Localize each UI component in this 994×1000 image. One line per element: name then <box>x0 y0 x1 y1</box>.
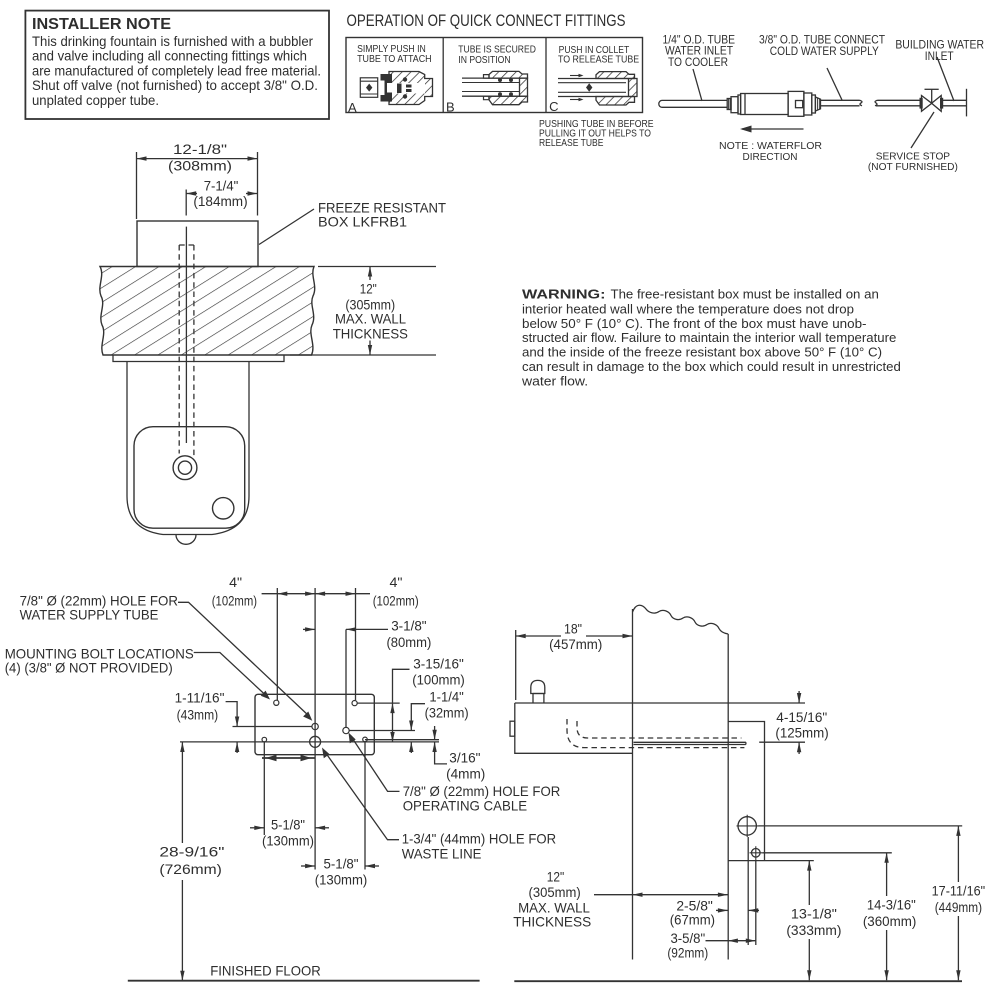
panel B orings <box>498 78 502 82</box>
svg-text:12": 12" <box>547 868 565 884</box>
dim 12-1/8 text <box>168 141 232 174</box>
svg-text:WATER SUPPLY TUBE: WATER SUPPLY TUBE <box>20 606 159 622</box>
dim 7-1/4 arrows <box>186 193 197 195</box>
hole waste <box>310 736 321 747</box>
svg-text:COLD WATER SUPPLY: COLD WATER SUPPLY <box>770 44 879 58</box>
hole operating cable <box>343 727 349 733</box>
svg-text:4": 4" <box>229 574 242 590</box>
label waste line hole <box>402 830 556 861</box>
leader waste line <box>324 751 399 840</box>
dim 3-1/8 arrows <box>303 628 315 630</box>
label freeze resistant box <box>318 200 446 230</box>
basin front <box>134 427 245 529</box>
svg-text:(102mm): (102mm) <box>373 592 419 608</box>
side plate bottom and ref 13-1/8 <box>728 860 814 862</box>
svg-text:3-15/16": 3-15/16" <box>413 656 464 672</box>
dim 2-5/8 text <box>670 898 715 928</box>
panel A gripper <box>397 84 402 94</box>
bottom bump <box>176 535 196 545</box>
svg-text:FINISHED FLOOR: FINISHED FLOOR <box>210 963 321 979</box>
dim 4in left text <box>212 574 257 608</box>
svg-text:17-11/16": 17-11/16" <box>932 883 986 899</box>
ext 18 left <box>515 630 517 700</box>
warning text <box>521 286 901 388</box>
svg-text:(4mm): (4mm) <box>446 765 485 781</box>
label 3/8 OD tube connect <box>759 33 886 59</box>
service stop valve <box>920 89 944 111</box>
dim 1-11/16 lower arrow <box>236 742 238 753</box>
svg-text:IN POSITION: IN POSITION <box>458 55 510 66</box>
dim 3/16 text <box>446 749 485 781</box>
svg-text:(125mm): (125mm) <box>775 725 828 741</box>
note waterflow label <box>719 141 822 163</box>
tube cold water supply (right tube) <box>821 100 863 106</box>
svg-text:(92mm): (92mm) <box>667 944 708 960</box>
svg-text:(80mm): (80mm) <box>386 634 431 650</box>
svg-text:(32mm): (32mm) <box>425 704 469 720</box>
svg-text:NOTE : WATERFLOR: NOTE : WATERFLOR <box>719 141 822 152</box>
svg-text:3/16": 3/16" <box>449 749 480 765</box>
leader operating cable <box>351 736 400 792</box>
svg-text:1-11/16": 1-11/16" <box>175 689 225 705</box>
panel B tube <box>462 77 521 79</box>
leader service stop <box>911 112 934 148</box>
dim 4in line <box>262 593 370 595</box>
svg-text:3-1/8": 3-1/8" <box>391 618 426 634</box>
dim 1-1/4 text <box>425 688 469 720</box>
leader freeze resistant <box>259 209 314 245</box>
svg-text:DIRECTION: DIRECTION <box>743 152 798 163</box>
svg-text:(130mm): (130mm) <box>262 832 314 848</box>
bubbler front outer <box>173 456 197 480</box>
dim 4in right text <box>373 574 419 608</box>
hole top-right bolt <box>352 701 357 706</box>
svg-text:(457mm): (457mm) <box>549 636 602 652</box>
panels outer box <box>346 38 643 113</box>
floor line left <box>128 980 480 982</box>
svg-text:This drinking fountain is furn: This drinking fountain is furnished with… <box>32 34 313 49</box>
dim 5-1/8 #2 <box>315 856 368 888</box>
dashed supply tube front <box>179 245 194 457</box>
wall side right edge <box>727 634 729 960</box>
pushing tube note <box>539 119 654 149</box>
tube break squiggle <box>875 100 922 106</box>
svg-text:5-1/8": 5-1/8" <box>324 856 359 872</box>
tube to building inlet <box>941 100 966 106</box>
bubbler front inner <box>178 461 191 474</box>
dim 12 side text <box>513 868 591 929</box>
svg-text:RELEASE TUBE: RELEASE TUBE <box>539 138 604 149</box>
quick connect coupling <box>727 91 820 116</box>
svg-text:18": 18" <box>564 621 582 637</box>
dim 12in wall text <box>333 281 408 342</box>
svg-text:INSTALLER NOTE: INSTALLER NOTE <box>32 16 171 33</box>
dim 12-1/8 line <box>137 158 258 160</box>
tick 7-1/4 center <box>185 190 187 216</box>
fountain body front <box>127 362 249 535</box>
svg-text:are manufactured of completely: are manufactured of completely lead free… <box>32 63 321 78</box>
svg-text:(100mm): (100mm) <box>412 672 465 688</box>
svg-text:13-1/8": 13-1/8" <box>791 906 837 922</box>
dim 3-15/16 bracket <box>393 669 410 742</box>
label building water inlet <box>895 38 984 64</box>
svg-text:(67mm): (67mm) <box>670 911 715 927</box>
panel A fitting body <box>389 72 433 105</box>
svg-text:water flow.: water flow. <box>521 373 588 388</box>
svg-text:12": 12" <box>360 281 377 297</box>
tube to cooler (left tube) <box>659 100 727 107</box>
svg-text:C: C <box>549 99 558 114</box>
dim 12 side line <box>594 894 728 896</box>
dim 2-5/8 arrows <box>716 909 728 911</box>
panel C push arrows <box>570 75 580 77</box>
svg-text:MAX. WALL: MAX. WALL <box>335 311 406 327</box>
svg-text:1-3/4" (44mm) HOLE FOR: 1-3/4" (44mm) HOLE FOR <box>402 830 556 846</box>
dim 1-11/16 bracket <box>226 702 238 727</box>
ext hole2 down <box>755 859 757 945</box>
service stop label <box>868 152 958 173</box>
svg-text:12-1/8": 12-1/8" <box>173 141 227 157</box>
wall section hatched <box>100 267 315 356</box>
leader building water <box>937 57 954 101</box>
svg-text:unplated copper tube.: unplated copper tube. <box>32 93 159 108</box>
svg-text:THICKNESS: THICKNESS <box>513 914 591 930</box>
floor line right <box>514 980 962 982</box>
ext TR hole <box>355 588 357 700</box>
dim 18 text <box>549 621 602 653</box>
panel A caption <box>357 44 432 65</box>
svg-text:structed air flow. Failure to: structed air flow. Failure to maintain t… <box>522 330 896 345</box>
label 1/4 OD tube <box>663 32 736 69</box>
wall side left edge <box>632 609 634 960</box>
label operating cable hole <box>403 783 561 814</box>
svg-text:5-1/8": 5-1/8" <box>271 816 305 832</box>
svg-text:(43mm): (43mm) <box>177 707 219 723</box>
svg-text:B: B <box>446 99 455 114</box>
svg-text:TUBE TO ATTACH: TUBE TO ATTACH <box>357 54 432 65</box>
ext line right <box>257 152 259 216</box>
drain circle <box>213 498 234 519</box>
dim 28-9/16 text <box>159 843 224 877</box>
dim 18 line <box>516 635 561 637</box>
svg-text:(308mm): (308mm) <box>168 158 232 174</box>
side tab <box>510 721 515 736</box>
svg-text:can result in damage to the bo: can result in damage to the box which co… <box>522 359 901 374</box>
panel C tube <box>558 78 628 80</box>
svg-text:INLET: INLET <box>925 49 954 63</box>
ref line 4-15/16 lower <box>759 741 805 743</box>
ext line left 12-1/8 <box>136 152 138 219</box>
svg-text:interior heated wall where the: interior heated wall where the temperatu… <box>522 301 854 316</box>
dashed tube outer <box>567 719 744 748</box>
svg-text:14-3/16": 14-3/16" <box>867 896 916 912</box>
installer note box <box>25 11 329 119</box>
panel C fitting drawing <box>558 72 637 105</box>
dim 3-5/8 arrows <box>706 940 728 942</box>
panel A fitting drawing <box>360 72 432 105</box>
svg-text:1-1/4": 1-1/4" <box>429 688 463 704</box>
line A bottom holes <box>365 739 439 741</box>
leader water supply hole <box>178 602 310 716</box>
svg-text:WASTE LINE: WASTE LINE <box>402 846 482 862</box>
dim 17-11/16 <box>932 883 986 916</box>
dim 3-15/16 text <box>412 656 465 688</box>
fountain top ref line <box>515 702 805 704</box>
dashed tube inner <box>577 721 741 738</box>
side hole 2 <box>752 849 761 858</box>
panel divider 1 <box>442 38 444 113</box>
dim 5-1/8 #1 <box>262 816 314 848</box>
svg-text:(305mm): (305mm) <box>529 884 581 900</box>
panel A collet black <box>381 74 393 102</box>
solid tube right of wall <box>634 742 746 744</box>
svg-text:A: A <box>348 100 357 115</box>
dim 12in wall vertical <box>369 267 371 281</box>
leader mounting bolts <box>194 653 267 697</box>
ext center <box>314 588 316 870</box>
svg-text:below 50° F (10° C). The front: below 50° F (10° C). The front of the bo… <box>522 316 867 331</box>
panel divider 2 <box>545 38 547 113</box>
dim 4-15/16 arrows <box>798 691 800 703</box>
svg-text:THICKNESS: THICKNESS <box>333 325 408 341</box>
dim 28-9/16 line <box>181 742 183 843</box>
waterflow arrow <box>742 128 804 130</box>
svg-text:WARNING:: WARNING: <box>522 286 606 301</box>
svg-text:and the inside of the freeze r: and the inside of the freeze resistant b… <box>522 345 882 360</box>
hole bottom-left bolt <box>262 737 267 742</box>
svg-text:(726mm): (726mm) <box>159 861 222 877</box>
ext line wall top right <box>318 266 436 268</box>
label mounting bolt locations <box>5 646 194 676</box>
ext line wall bottom right <box>290 354 436 356</box>
dim 3-1/8 text <box>386 618 431 651</box>
hole bottom-right bolt <box>363 737 368 742</box>
svg-text:(130mm): (130mm) <box>315 872 368 888</box>
dim 3/16 bracket <box>435 742 447 764</box>
ref line hole1 <box>759 825 963 827</box>
dim 1-1/4 bracket <box>411 704 425 731</box>
svg-text:(NOT FURNISHED): (NOT FURNISHED) <box>868 162 958 173</box>
dim 3-5/8 text <box>667 930 708 960</box>
under-plate double arrow <box>262 757 315 759</box>
svg-text:(102mm): (102mm) <box>212 592 257 608</box>
side plate vertical <box>728 722 764 861</box>
long line B <box>180 741 439 743</box>
svg-text:7-1/4": 7-1/4" <box>204 177 239 193</box>
dim 13-1/8 <box>786 906 841 939</box>
leader 1/4 od <box>693 69 702 101</box>
panel B collet step <box>484 75 490 100</box>
hole water supply <box>312 723 318 729</box>
panel A tube <box>360 78 377 98</box>
panel C caption <box>558 45 639 65</box>
panel B fitting drawing <box>462 71 528 104</box>
svg-text:TO RELEASE TUBE: TO RELEASE TUBE <box>558 55 639 66</box>
svg-text:(333mm): (333mm) <box>786 922 841 938</box>
svg-text:(184mm): (184mm) <box>193 193 247 209</box>
freeze resistant box <box>137 221 258 267</box>
dim 14-3/16 <box>863 896 917 929</box>
ref line supply hole left <box>233 726 312 728</box>
building water wall line <box>966 89 968 117</box>
dim 7-1/4 text <box>193 177 247 209</box>
svg-text:7/8" Ø (22mm) HOLE FOR: 7/8" Ø (22mm) HOLE FOR <box>403 783 561 799</box>
ext TL hole <box>276 588 278 700</box>
ref line cable hole <box>350 730 416 732</box>
svg-text:4": 4" <box>390 574 403 590</box>
panel B caption <box>458 45 536 66</box>
side hole 1 <box>738 817 756 835</box>
ext BL hole down <box>263 742 265 835</box>
center line front <box>185 227 187 443</box>
dim 4-15/16 text <box>775 709 828 741</box>
leader 3/8 od <box>827 68 842 100</box>
dim 3/16 upper arrow <box>434 726 436 740</box>
escutcheon plate under wall <box>113 355 284 362</box>
svg-text:and valve including all connec: and valve including all connecting fitti… <box>32 49 307 64</box>
ext hole1 down <box>747 837 749 945</box>
ext BR hole down <box>364 742 366 870</box>
svg-text:SERVICE STOP: SERVICE STOP <box>876 152 951 163</box>
svg-text:(4) (3/8" Ø NOT PROVIDED): (4) (3/8" Ø NOT PROVIDED) <box>5 660 173 676</box>
svg-text:28-9/16": 28-9/16" <box>159 843 224 859</box>
panel B nut hatched <box>489 71 528 78</box>
fountain side body <box>515 703 633 753</box>
ref line hole2 <box>762 852 892 854</box>
bubbler side dome <box>531 680 545 693</box>
svg-text:4-15/16": 4-15/16" <box>776 709 827 725</box>
svg-text:(449mm): (449mm) <box>935 899 982 915</box>
label water supply hole <box>20 592 178 622</box>
svg-text:TO COOLER: TO COOLER <box>668 55 728 69</box>
ref line TR hole <box>358 702 400 704</box>
svg-text:BOX LKFRB1: BOX LKFRB1 <box>318 213 407 229</box>
svg-text:(360mm): (360mm) <box>863 913 917 929</box>
dim 1-1/4 lower arrow <box>410 742 412 753</box>
hole top-left bolt <box>274 700 279 705</box>
dim 1-11/16 text <box>175 689 225 722</box>
panel C nut hatched <box>596 72 635 79</box>
mounting plate <box>255 694 374 754</box>
svg-text:The free-resistant box must be: The free-resistant box must be installed… <box>611 286 879 301</box>
svg-text:OPERATION OF QUICK CONNECT FIT: OPERATION OF QUICK CONNECT FITTINGS <box>347 11 626 30</box>
ext cable hole <box>345 629 347 728</box>
svg-text:OPERATING CABLE: OPERATING CABLE <box>403 798 527 814</box>
bubbler side base <box>533 694 545 704</box>
svg-text:Shut off valve (not furnished): Shut off valve (not furnished) to accept… <box>32 78 318 93</box>
installer note body <box>32 34 321 108</box>
wall side wavy top <box>633 605 729 634</box>
